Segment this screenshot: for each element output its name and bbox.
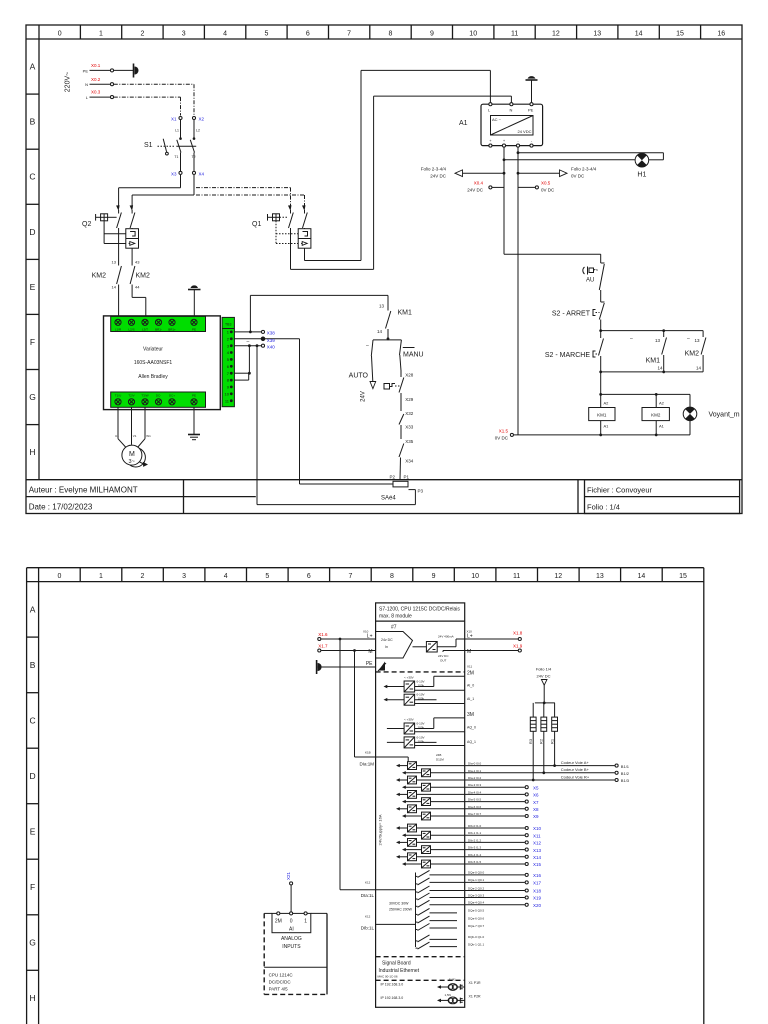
svg-text:Q1: Q1 <box>252 221 261 228</box>
svg-text:DQa-3 Q0.3: DQa-3 Q0.3 <box>468 893 485 897</box>
svg-text:X11: X11 <box>467 665 472 669</box>
svg-text:Fichier : Convoyeur: Fichier : Convoyeur <box>587 485 653 494</box>
svg-text:14: 14 <box>657 365 663 370</box>
wire DIb:1L pin <box>361 915 375 931</box>
svg-text:R1: R1 <box>549 738 554 744</box>
wire M rail to DIa:1M <box>355 651 409 767</box>
svg-text:MANU: MANU <box>403 352 424 359</box>
svg-text:11: 11 <box>513 573 520 580</box>
svg-text:24V DC: 24V DC <box>536 674 550 679</box>
svg-text:DQa-2 Q0.2: DQa-2 Q0.2 <box>468 886 485 890</box>
relay contact DQb-1 <box>416 942 485 949</box>
svg-text:M: M <box>129 451 135 458</box>
svg-text:IP 192.168.3.0: IP 192.168.3.0 <box>381 983 404 987</box>
relay contact DQa-1 <box>416 878 542 886</box>
svg-text:E: E <box>30 282 36 292</box>
svg-text:max. 8 module: max. 8 module <box>379 613 412 619</box>
svg-text:24V DC: 24V DC <box>430 174 447 179</box>
svg-text:DIa-0 I0.0: DIa-0 I0.0 <box>468 762 482 766</box>
circuit breaker Q1 <box>252 205 311 258</box>
svg-text:X35: X35 <box>405 439 414 444</box>
svg-text:X17: X17 <box>533 881 542 886</box>
svg-text:Folio 2-3-4/4: Folio 2-3-4/4 <box>571 167 597 172</box>
svg-text:Folio 2-3-4/4: Folio 2-3-4/4 <box>421 167 447 172</box>
proximity sensor symbol <box>384 384 400 390</box>
wire M row inside <box>443 651 465 653</box>
wire 24V rail down <box>503 147 506 254</box>
svg-text:Voyant_m: Voyant_m <box>709 412 740 419</box>
svg-text:24V/Supply= 16A: 24V/Supply= 16A <box>378 814 383 845</box>
ground symbol below VFD PE <box>188 407 200 439</box>
PE tap symbol above VFD <box>188 285 201 316</box>
svg-text:KM1: KM1 <box>646 358 661 365</box>
folio arrow 24V DC left <box>421 167 504 179</box>
svg-text:BR1-: BR1- <box>155 327 162 331</box>
svg-text:15: 15 <box>676 31 684 38</box>
svg-text:Allen Bradley: Allen Bradley <box>138 374 168 380</box>
wire L mains row <box>86 90 181 116</box>
svg-text:X1: X1 <box>171 117 177 122</box>
folio 1/4 24V DC arrow <box>535 667 555 705</box>
svg-text:DIb-4 I1.4: DIb-4 I1.4 <box>468 853 482 857</box>
svg-text:A1: A1 <box>659 423 665 428</box>
wire 0V to H1 loop <box>518 153 663 160</box>
wire TB3 pins7-8 loop <box>234 346 250 380</box>
svg-text:AI: AI <box>289 926 294 932</box>
codeur row B+ <box>431 767 630 776</box>
opto input DIa-4 I0.4 <box>396 790 482 798</box>
switch S1 <box>144 120 200 171</box>
svg-text:Date : 17/02/2023: Date : 17/02/2023 <box>29 503 93 512</box>
node X13 <box>431 848 542 853</box>
svg-text:DIa-6 I0.6: DIa-6 I0.6 <box>468 805 482 809</box>
svg-text:D: D <box>30 771 36 781</box>
svg-text:S2 - MARCHE: S2 - MARCHE <box>545 352 590 359</box>
push button S2-ARRET <box>552 302 605 332</box>
svg-text:X7: X7 <box>533 800 539 805</box>
svg-text:7: 7 <box>348 573 352 580</box>
codeur row A+ <box>417 760 630 769</box>
terminal block TB3 <box>222 317 234 406</box>
svg-text:X1.6: X1.6 <box>318 632 328 637</box>
svg-text:44: 44 <box>135 285 140 290</box>
svg-text:X1.7: X1.7 <box>318 644 328 649</box>
svg-text:R2: R2 <box>539 738 544 744</box>
svg-text:PE: PE <box>528 108 534 113</box>
PLC CPU box S7-1200 <box>376 603 465 1007</box>
svg-text:X0.4: X0.4 <box>474 181 484 186</box>
svg-text:Q2: Q2 <box>82 221 91 228</box>
svg-text:R3: R3 <box>528 738 533 744</box>
svg-text:24V 400mA: 24V 400mA <box>438 635 454 639</box>
relay contact DQb-0 <box>416 935 485 942</box>
svg-text:INPUTS: INPUTS <box>282 944 301 950</box>
svg-text:4: 4 <box>223 31 227 38</box>
opto input DIa-2 I0.2 <box>396 776 482 784</box>
PSU funnel inside CPU <box>376 632 413 659</box>
svg-text:X39: X39 <box>267 338 276 343</box>
svg-text:L1: L1 <box>175 129 179 133</box>
PE flag inside box <box>378 662 386 672</box>
svg-text:B1/2: B1/2 <box>621 771 630 776</box>
folio arrow 0V DC right <box>518 167 597 179</box>
svg-text:–: – <box>366 343 369 349</box>
MANU branch contact chain <box>399 340 424 480</box>
svg-text:X11: X11 <box>533 833 541 838</box>
svg-text:KM2: KM2 <box>685 351 700 358</box>
svg-text:13: 13 <box>655 338 661 343</box>
svg-text:KM2: KM2 <box>136 272 151 279</box>
svg-text:Signal Board: Signal Board <box>382 961 411 967</box>
svg-text:12: 12 <box>552 31 560 38</box>
coil KM1 <box>589 401 615 437</box>
svg-text:X13: X13 <box>533 848 542 853</box>
svg-text:DC-: DC- <box>156 393 161 397</box>
opto input DIa-1 I0.1 <box>402 769 482 777</box>
svg-text:AQ_1: AQ_1 <box>467 740 476 744</box>
svg-text:9: 9 <box>432 573 436 580</box>
codeur row R+ <box>417 774 630 783</box>
svg-text:A1: A1 <box>604 423 610 428</box>
svg-text:24V: 24V <box>360 391 366 402</box>
svg-text:DQa-0 Q0.0: DQa-0 Q0.0 <box>468 871 485 875</box>
node X6 <box>417 793 540 798</box>
svg-text:KM1: KM1 <box>398 310 413 317</box>
relay contact DQa-5 <box>416 908 485 915</box>
svg-text:PE: PE <box>83 68 89 73</box>
PE plug symbol page2 <box>317 660 376 674</box>
opto input DIb-0 I1.0 <box>396 824 482 832</box>
svg-text:P2: P2 <box>389 474 395 479</box>
svg-text:5: 5 <box>265 573 269 580</box>
contact KM2 left pole (13-14) <box>92 258 122 316</box>
DC/DC converter <box>413 635 454 663</box>
node X3 <box>171 171 182 176</box>
svg-text:X1 P1R: X1 P1R <box>469 981 482 985</box>
svg-text:X0.5: X0.5 <box>541 181 551 186</box>
wire X4 to Q2 right pole <box>132 175 194 208</box>
svg-text:AC ~: AC ~ <box>492 117 502 122</box>
svg-text:14: 14 <box>635 31 643 38</box>
svg-text:24v DC: 24v DC <box>381 638 393 642</box>
svg-text:DC+: DC+ <box>169 393 175 397</box>
svg-text:H: H <box>30 993 36 1003</box>
potentiometer SAe4 <box>300 474 424 501</box>
svg-text:X15: X15 <box>533 862 542 867</box>
svg-text:DQa-7 Q0.7: DQa-7 Q0.7 <box>468 924 485 928</box>
svg-text:6: 6 <box>306 31 310 38</box>
svg-text:0V DC: 0V DC <box>571 174 585 179</box>
svg-text:DQa-4 Q0.4: DQa-4 Q0.4 <box>468 901 485 905</box>
svg-text:16: 16 <box>717 31 725 38</box>
svg-text:DIb-0 I1.0: DIb-0 I1.0 <box>468 824 482 828</box>
wire dash-dot to Q1 left pole <box>196 188 291 207</box>
svg-text:T1/U: T1/U <box>115 393 122 397</box>
svg-text:DIa-7 I0.7: DIa-7 I0.7 <box>468 812 482 816</box>
svg-text:X9: X9 <box>533 814 539 819</box>
svg-text:13: 13 <box>593 31 601 38</box>
svg-text:X33: X33 <box>405 425 414 430</box>
svg-text:3M: 3M <box>467 712 474 718</box>
svg-text:V1: V1 <box>133 434 137 438</box>
svg-text:X1.9: X1.9 <box>513 644 523 649</box>
wire KM1 line <box>250 295 388 310</box>
svg-text:D: D <box>29 227 35 237</box>
svg-text:B1/1: B1/1 <box>621 764 630 769</box>
svg-text:14: 14 <box>112 285 117 290</box>
svg-text:B: B <box>30 117 36 127</box>
svg-text:X19: X19 <box>533 896 542 901</box>
svg-text:–: – <box>630 336 633 342</box>
svg-text:X16: X16 <box>533 873 542 878</box>
svg-text:9: 9 <box>430 31 434 38</box>
svg-text:X2: X2 <box>199 117 205 122</box>
opto input DIb-1 I1.1 <box>402 831 482 839</box>
svg-text:8: 8 <box>390 573 394 580</box>
opto input DIa-6 I0.6 <box>396 805 482 813</box>
svg-text:X5: X5 <box>533 785 539 790</box>
svg-text:5-M1: 5-M1 <box>449 978 456 982</box>
svg-text:AU: AU <box>586 278 594 284</box>
node X12 <box>417 841 542 846</box>
svg-text:3~: 3~ <box>129 459 135 465</box>
svg-text:F: F <box>30 882 35 892</box>
svg-text:14: 14 <box>638 573 646 580</box>
wire PE mains row <box>83 63 133 73</box>
svg-text:DIb-5 I1.5: DIb-5 I1.5 <box>468 860 482 864</box>
analog output AQ_1 <box>387 735 476 748</box>
svg-text:DQb-1 Q1.1: DQb-1 Q1.1 <box>468 942 485 946</box>
svg-text:OUT: OUT <box>440 659 447 663</box>
svg-text:DQb-0 Q1.0: DQb-0 Q1.0 <box>468 935 485 939</box>
selector switch bar AUTO/MANU <box>373 339 401 341</box>
node X10 <box>417 826 542 831</box>
svg-text:14: 14 <box>377 329 383 334</box>
svg-text:14: 14 <box>696 365 702 370</box>
node X15 <box>431 862 542 867</box>
svg-text:< +30V: < +30V <box>404 718 414 722</box>
wire 24V to H1 <box>504 159 635 161</box>
svg-text:KM2: KM2 <box>651 413 661 418</box>
svg-text:–: – <box>687 336 690 342</box>
svg-text:W1: W1 <box>146 434 151 438</box>
motor M1 <box>122 445 148 467</box>
svg-text:SAé4: SAé4 <box>381 496 396 502</box>
opto input DIa-5 I0.5 <box>402 798 482 806</box>
svg-text:PART 4/5: PART 4/5 <box>269 987 289 992</box>
svg-text:1: 1 <box>99 573 103 580</box>
PE plug symbol <box>134 64 139 78</box>
svg-text:B1/3: B1/3 <box>621 778 630 783</box>
page 2 border frame <box>27 568 704 1024</box>
svg-text:L3/T: L3/T <box>142 327 148 331</box>
svg-text:X0.2: X0.2 <box>91 77 101 82</box>
opto input DIa-3 I0.3 <box>402 783 482 791</box>
svg-text:KM2: KM2 <box>92 272 107 279</box>
relay contact DQa-7 <box>416 924 485 931</box>
svg-text:24V DC: 24V DC <box>438 654 449 658</box>
DQa common bar <box>376 873 416 929</box>
svg-text:T3/W: T3/W <box>141 393 148 397</box>
circuit breaker Q2 <box>82 205 139 258</box>
svg-text:U1: U1 <box>115 434 119 438</box>
svg-text:4: 4 <box>224 573 228 580</box>
svg-text:Codeur Voie R+: Codeur Voie R+ <box>561 774 590 779</box>
svg-text:S2 - ARRET: S2 - ARRET <box>552 310 591 317</box>
svg-text:Folio 1/4: Folio 1/4 <box>536 667 552 672</box>
svg-text:0V DC: 0V DC <box>495 436 509 441</box>
svg-text:G: G <box>29 938 36 948</box>
svg-text:X21: X21 <box>286 872 291 881</box>
node X0.4 24V DC <box>467 181 504 193</box>
analog inputs module A1 <box>264 912 327 995</box>
svg-text:1,5N: 1,5N <box>445 993 451 997</box>
svg-text:0: 0 <box>58 31 62 38</box>
node X7 <box>431 800 540 805</box>
power supply A1 <box>459 103 543 148</box>
svg-text:2M: 2M <box>467 671 474 677</box>
svg-text:DIa-3 I0.3: DIa-3 I0.3 <box>468 783 482 787</box>
ground symbol above A1 PE <box>526 76 538 102</box>
node X1.9 M right <box>465 644 523 656</box>
svg-text:Codeur Voie A+: Codeur Voie A+ <box>561 760 590 765</box>
svg-text:1: 1 <box>304 918 307 924</box>
contact KM1 aux (13-14) <box>601 329 703 373</box>
svg-text:250VAC 200W: 250VAC 200W <box>389 908 413 912</box>
svg-text:X10: X10 <box>533 826 542 831</box>
svg-text:PE: PE <box>192 327 196 331</box>
svg-text:X1 P2R: X1 P2R <box>469 994 482 998</box>
node X1.6 L+ <box>318 630 376 641</box>
svg-text:0: 0 <box>57 573 61 580</box>
svg-text:15: 15 <box>679 573 687 580</box>
svg-text:S1: S1 <box>144 142 153 149</box>
svg-text:2: 2 <box>141 573 145 580</box>
svg-text:2M: 2M <box>275 918 282 924</box>
opto input DIb-4 I1.4 <box>396 853 482 861</box>
svg-text:P1: P1 <box>404 474 410 479</box>
svg-text:13: 13 <box>596 573 604 580</box>
svg-text:Codeur Voie B+: Codeur Voie B+ <box>561 767 590 772</box>
svg-text:Auteur : Evelyne MILHAMONT: Auteur : Evelyne MILHAMONT <box>29 485 138 494</box>
svg-text:X8: X8 <box>533 807 539 812</box>
svg-text:24 VDC: 24 VDC <box>517 129 531 134</box>
wire TB3 pin1 to X38 <box>234 295 275 335</box>
svg-text:KM1: KM1 <box>597 413 607 418</box>
svg-text:A2: A2 <box>604 401 610 406</box>
svg-text:DIa-5 I0.5: DIa-5 I0.5 <box>468 798 482 802</box>
svg-text:< +30V: < +30V <box>404 676 414 680</box>
svg-text:DIa-2 I0.2: DIa-2 I0.2 <box>468 776 482 780</box>
svg-text:DIa-1 I0.1: DIa-1 I0.1 <box>468 769 482 773</box>
svg-text:CPU 1214C: CPU 1214C <box>269 973 294 978</box>
svg-text:In: In <box>385 645 388 649</box>
svg-text:L2/S: L2/S <box>128 327 134 331</box>
svg-text:DIa-4 I0.4: DIa-4 I0.4 <box>468 790 482 794</box>
svg-text:T2/V: T2/V <box>128 393 134 397</box>
svg-text:T1: T1 <box>174 155 178 159</box>
VFD drive U1 Variateur 160S-AA03NSF1 <box>104 316 221 410</box>
svg-text:M: M <box>368 649 372 655</box>
wire Q1 right pole to A1 L <box>305 70 491 260</box>
svg-text:AQ_0: AQ_0 <box>467 726 476 730</box>
node X21 <box>286 872 293 914</box>
svg-text:G: G <box>29 392 36 402</box>
svg-text:X28: X28 <box>405 372 414 377</box>
ethernet port X1 P2R <box>381 994 482 1003</box>
svg-text:C: C <box>30 715 36 725</box>
svg-text:13: 13 <box>112 259 117 264</box>
svg-text:10: 10 <box>225 391 230 396</box>
wire N mains row <box>85 77 194 116</box>
wire 24V to AU <box>504 253 601 255</box>
lamp H1 <box>635 153 649 178</box>
svg-text:3: 3 <box>182 573 186 580</box>
svg-text:C: C <box>29 172 35 182</box>
opto input DIb-5 I1.5 <box>402 860 482 868</box>
node X9 <box>431 814 540 819</box>
AUTO branch with arrow to 24V <box>349 340 376 402</box>
node X1.5 0V rail <box>495 429 690 441</box>
opto input DIa-0 I0.0 <box>396 762 482 770</box>
svg-text:#7: #7 <box>391 625 397 631</box>
svg-text:N: N <box>510 108 513 113</box>
wire L+ rail to DIa:1L <box>340 639 376 898</box>
svg-text:220V~: 220V~ <box>65 72 72 92</box>
svg-text:PE: PE <box>366 661 373 667</box>
node X1 <box>171 116 182 121</box>
svg-text:7: 7 <box>347 31 351 38</box>
svg-text:B: B <box>30 660 36 670</box>
svg-text:10: 10 <box>471 573 479 580</box>
wire converter to L+ out <box>437 639 465 647</box>
contact KM2 aux (13-14) <box>601 331 706 372</box>
svg-text:1: 1 <box>99 31 103 38</box>
resistor R3 <box>528 703 536 781</box>
svg-text:X38: X38 <box>267 330 276 335</box>
svg-text:DIb-3 I1.3: DIb-3 I1.3 <box>468 846 482 850</box>
svg-text:DIb-1 I1.1: DIb-1 I1.1 <box>468 831 482 835</box>
svg-text:Industrial Ethernet: Industrial Ethernet <box>379 968 420 974</box>
svg-text:5: 5 <box>264 31 268 38</box>
motor M1 3-phase wires <box>115 407 151 447</box>
svg-text:11: 11 <box>511 31 518 38</box>
svg-text:–: – <box>247 339 250 345</box>
page 1 border frame <box>26 25 742 514</box>
relay contact DQa-4 <box>416 900 542 908</box>
contact KM1 (13-14) <box>377 304 412 341</box>
analog input AI_1 <box>384 693 475 706</box>
svg-text:Folio : 1/4: Folio : 1/4 <box>587 503 620 512</box>
svg-text:BR1+: BR1+ <box>168 327 176 331</box>
svg-text:X29: X29 <box>405 397 414 402</box>
svg-text:ANALOG: ANALOG <box>281 936 302 942</box>
svg-text:A: A <box>30 604 36 614</box>
svg-text:X1.5: X1.5 <box>499 429 509 434</box>
DQb common bar <box>376 924 416 947</box>
relay contact DQa-6 <box>416 916 485 923</box>
svg-text:H: H <box>29 447 35 457</box>
svg-text:X40: X40 <box>267 345 276 350</box>
relay contact DQa-3 <box>416 893 542 901</box>
svg-text:AUTO: AUTO <box>349 373 369 380</box>
svg-text:S7-1200, CPU 1215C DC/DC/Relai: S7-1200, CPU 1215C DC/DC/Relais <box>379 607 460 613</box>
svg-text:X4: X4 <box>199 171 205 176</box>
svg-text:X18: X18 <box>533 889 542 894</box>
svg-text:A2: A2 <box>659 401 665 406</box>
svg-text:X0.1: X0.1 <box>91 63 101 68</box>
svg-text:24V DC: 24V DC <box>467 188 484 193</box>
